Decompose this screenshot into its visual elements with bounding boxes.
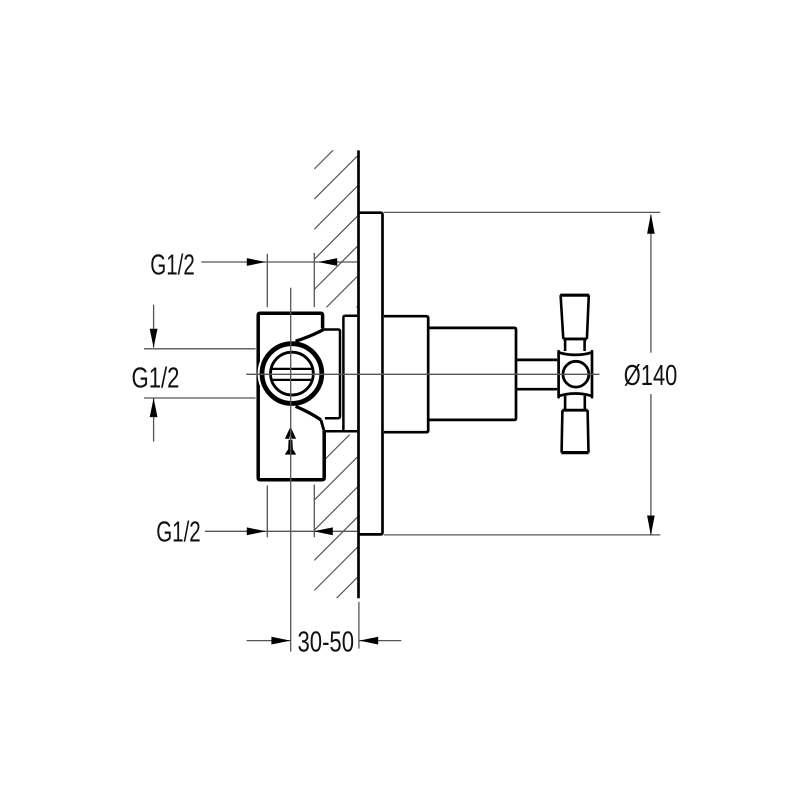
valve body outline [258,313,324,480]
arrow right at x267 y531 [247,527,266,535]
flow arrow glyph [285,427,296,439]
body lower-right slant edge [321,420,324,431]
handle upper arm [560,295,589,339]
handle upper neck [565,340,585,353]
Ø140 extension lines [384,212,661,535]
wall opening (white hole for valve) [313,307,359,434]
horizontal centerline [246,373,599,375]
wall collar [324,316,358,431]
valve body fill [257,312,325,482]
arrow right at 30-50 left [271,637,290,645]
handle hub fill [557,351,593,398]
neck fillet curve top [296,330,324,341]
thin lines: centerlines and extensions [144,212,660,651]
arrow down at flange bottom [647,516,655,536]
arrow left at x318 y262 [318,258,337,266]
dimension arrows [150,214,655,645]
escutcheon flange fill [357,211,384,535]
screw slot lines [269,369,315,380]
vertical centerline [290,288,292,652]
arrow up at flange top [647,214,655,234]
handle hub outline [559,351,592,397]
G1/2 top dimension line [201,261,357,263]
neck fillet curve bottom [296,406,321,420]
arrow up at port bottom [150,398,158,417]
body neck tab [321,330,340,419]
arrow down at port top [150,329,158,348]
arrow left at 30-50 right [359,637,378,645]
handle upper arm fill [559,294,590,341]
extension line x267 [266,254,268,537]
wall face line [357,150,360,598]
port inner circle [271,352,314,395]
30-50 right extension [358,602,360,649]
handle stem [516,360,560,389]
arrow left at x314 y531 [314,527,333,535]
Ø140 dimension vertical [650,215,652,534]
trim sleeve fill [384,315,430,434]
30-50 dimension line [247,640,402,642]
trim sleeve outline [384,316,428,432]
handle hub circle [563,361,589,387]
wall hatching [314,125,358,651]
port extension lines [144,349,256,398]
svg-text:G1/2: G1/2 [156,517,201,549]
svg-text:G1/2: G1/2 [132,363,180,395]
svg-text:30-50: 30-50 [298,627,355,659]
G1/2 bottom dimension line [205,530,357,532]
port boss white fill [258,339,327,408]
arrow right at x267 y262 [247,258,266,266]
G1/2 mid dimension vertical [153,305,155,442]
cartridge housing fill [430,327,518,422]
handle lower neck [565,396,585,411]
port outer circle [262,344,322,404]
extension line x314 (wall back face) [313,253,315,537]
handle lower arm fill [560,411,589,452]
cartridge housing outline [428,328,516,420]
escutcheon flange outline [358,213,383,535]
handle lower arm [561,410,588,452]
svg-text:Ø140: Ø140 [624,360,678,392]
svg-text:G1/2: G1/2 [150,249,195,281]
